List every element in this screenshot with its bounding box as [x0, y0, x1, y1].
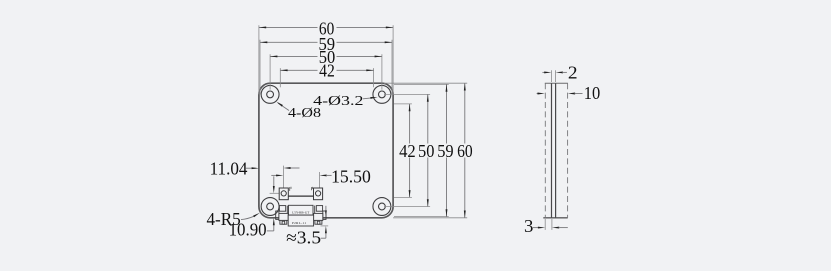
- svg-text:≈3.5: ≈3.5: [286, 228, 321, 248]
- dimension 42 top: [280, 69, 373, 71]
- svg-text:P2RL-11: P2RL-11: [292, 221, 306, 225]
- dimension 59 right: [446, 84, 448, 216]
- connector left wing: [279, 213, 288, 220]
- dimension 3 side: [545, 219, 552, 230]
- extension lines right dims: [384, 83, 467, 218]
- connector right tab: [323, 211, 326, 219]
- svg-text:10.90: 10.90: [229, 220, 267, 240]
- connector right step block: [316, 206, 322, 212]
- connector left jackscrew post: [279, 188, 288, 200]
- connector right foot notch: [317, 221, 320, 224]
- svg-text:42: 42: [319, 61, 335, 81]
- extension line connector bottom: [321, 225, 329, 227]
- connector right wing: [314, 213, 323, 220]
- dimension 60 top: [259, 26, 393, 28]
- dimension 50 right: [427, 94, 429, 206]
- svg-text:42: 42: [399, 141, 416, 161]
- hole bottom-right inner Ø3.2: [379, 203, 386, 210]
- hole top-right inner Ø3.2: [379, 91, 386, 98]
- connector right post screw circle: [316, 191, 321, 196]
- connector assembly at plate bottom: [279, 188, 322, 200]
- svg-text:2: 2: [568, 63, 578, 83]
- connector right step inner line: [314, 206, 316, 214]
- hole bottom-left inner Ø3.2: [267, 203, 274, 210]
- leader 4-Ø8: [278, 103, 289, 111]
- connector center lower body: [288, 215, 313, 226]
- side view bottom edge: [543, 217, 567, 219]
- hole top-left inner Ø3.2: [267, 91, 274, 98]
- leader 4-Ø3.2: [363, 98, 373, 99]
- dimension 59 top: [260, 41, 392, 43]
- dimension 42 right: [409, 104, 411, 197]
- svg-text:60: 60: [457, 141, 473, 161]
- hole top-left outer Ø8: [261, 85, 279, 103]
- connector left tab: [276, 211, 279, 219]
- extension lines top dims: [259, 25, 393, 94]
- hole bottom-right outer Ø8: [373, 198, 391, 216]
- connector center upper body: [289, 205, 314, 215]
- side view top edge: [545, 82, 568, 84]
- dimension 2 side: [552, 70, 556, 82]
- svg-text:59: 59: [437, 141, 453, 161]
- extension line left post center vertical: [282, 166, 284, 191]
- dimension 10 side: [537, 93, 539, 95]
- dimension 15.50: [271, 174, 276, 176]
- connector shell top edge between posts: [288, 195, 313, 197]
- connector left step block: [279, 206, 285, 212]
- dimension 50 top: [270, 55, 382, 57]
- svg-text:11.04: 11.04: [210, 159, 248, 179]
- side view plate front face: [551, 83, 553, 218]
- svg-text:15.50: 15.50: [331, 167, 371, 187]
- connector right jackscrew post: [314, 188, 323, 200]
- connector pin1 tick marks left: [290, 187, 313, 191]
- svg-text:3: 3: [524, 216, 533, 236]
- connector right foot: [315, 220, 322, 224]
- extension line right post center vertical: [318, 172, 320, 191]
- extension line post center horizontal: [270, 192, 279, 194]
- hole top-right outer Ø8: [373, 85, 391, 103]
- side view plate back face: [555, 83, 557, 218]
- side view hidden left edge (dashed): [544, 83, 546, 218]
- connector left foot: [280, 220, 287, 224]
- side view hidden right edge (dashed): [567, 83, 569, 218]
- plate outline (60x60 rounded square, front view): [259, 83, 393, 218]
- connector left foot notch: [282, 221, 285, 224]
- svg-text:50: 50: [418, 141, 434, 161]
- connector left step inner line: [286, 206, 288, 214]
- svg-text:10: 10: [584, 83, 601, 103]
- svg-text:4-Ø3.2: 4-Ø3.2: [313, 94, 363, 109]
- connector pin tick marks right: [310, 187, 312, 190]
- connector left post screw circle: [281, 191, 286, 196]
- dimension 60 right: [464, 83, 466, 218]
- hole bottom-left outer Ø8: [261, 198, 279, 216]
- leader 4-R5: [241, 216, 254, 219]
- svg-text:L5Y-RB-GT: L5Y-RB-GT: [292, 211, 309, 215]
